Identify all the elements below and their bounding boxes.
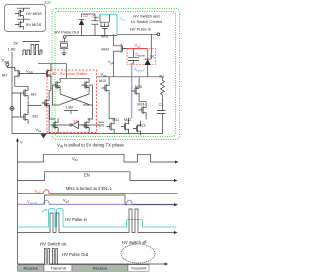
svg-text:R1: R1 (160, 75, 165, 79)
phase band transmit 1 (44, 265, 72, 271)
svg-text:1.8V: 1.8V (8, 47, 17, 52)
wire top rail (82, 13, 96, 15)
svg-text:HV Switch off: HV Switch off (122, 240, 147, 245)
svg-text:1.8V: 1.8V (65, 105, 74, 110)
svg-text:D1: D1 (150, 54, 155, 58)
signal VIN (18, 154, 177, 162)
transistor M15 (132, 84, 140, 97)
green dotted outer box (52, 9, 180, 140)
wire input vertical (12, 52, 21, 134)
wire cross-coupled (53, 78, 93, 105)
svg-text:HV Pulse In: HV Pulse In (130, 27, 151, 32)
wire Vboost purple (131, 63, 133, 118)
svg-text:HV Switch on: HV Switch on (40, 242, 67, 247)
transistor M1 (21, 110, 29, 123)
wire Vg2 red (127, 49, 148, 59)
wire shifter bottoms (58, 125, 99, 134)
signal gate drive cyan (18, 209, 177, 228)
transistor M5 (42, 96, 50, 109)
svg-text:HV Pulse Out: HV Pulse Out (55, 30, 80, 35)
wire M2/M5/M1 drains (15, 80, 49, 134)
transistor M3 (51, 118, 59, 131)
svg-text:MH2: MH2 (102, 48, 110, 52)
legend box (5, 5, 46, 32)
ellipse highlight (121, 244, 155, 263)
wire Vgnd to M7 (7, 66, 15, 70)
wire LV gates (114, 118, 141, 134)
transistor M8 (82, 118, 90, 131)
svg-text:Receive: Receive (93, 266, 108, 271)
svg-text:EN: EN (84, 173, 90, 178)
transducer element (63, 36, 66, 39)
phase band receive 2 (72, 265, 128, 271)
wire shifter sides (50, 105, 93, 119)
svg-text:10x: 10x (44, 0, 52, 5)
wire bottom rail (12, 133, 163, 135)
svg-text:HV Switch and: HV Switch and (133, 14, 159, 19)
svg-text:M9: M9 (85, 85, 90, 89)
svg-text:M2: M2 (31, 92, 37, 97)
svg-text:M14: M14 (138, 103, 145, 107)
svg-text:5V: 5V (14, 41, 19, 46)
svg-text:D2: D2 (84, 14, 89, 18)
svg-text:Receive: Receive (23, 266, 38, 271)
wire M15/M14 (139, 77, 146, 119)
legend 5V MOS symbol (15, 19, 30, 29)
svg-text:HV MOS: HV MOS (26, 11, 42, 16)
svg-text:M7: M7 (2, 73, 8, 78)
wire cyan Vg1 (100, 14, 117, 35)
svg-text:MH2 is turned on if EN=1: MH2 is turned on if EN=1 (66, 186, 113, 191)
phase band receive 1 (18, 265, 45, 271)
capacitor Cboost (127, 49, 156, 65)
transistor M2 (21, 86, 29, 99)
wire Vgs rail (97, 76, 163, 78)
svg-text:M10: M10 (99, 79, 106, 83)
legend HV MOS symbol (15, 8, 30, 18)
signal EN (18, 172, 176, 181)
svg-text:M1: M1 (33, 114, 39, 119)
svg-text:HV Pulse in: HV Pulse in (65, 217, 88, 222)
svg-text:M11: M11 (113, 118, 120, 122)
clock waveform glyph (22, 42, 42, 55)
svg-text:5V MOS: 5V MOS (26, 22, 41, 27)
svg-text:Transmit: Transmit (50, 266, 66, 271)
ground transducer (62, 53, 67, 56)
wire VDD rail (23, 73, 45, 75)
svg-text:M12: M12 (124, 118, 131, 122)
svg-text:MH1: MH1 (101, 35, 109, 39)
svg-text:LV Switch Control: LV Switch Control (131, 19, 163, 24)
signal Vg2 black box (45, 195, 126, 205)
svg-text:Transmit: Transmit (131, 266, 147, 271)
svg-text:M15: M15 (135, 85, 142, 89)
svg-text:V: V (20, 140, 23, 145)
svg-text:EN: EN (99, 123, 105, 128)
wire M4 drain down (38, 64, 67, 97)
green dotted inner box (55, 12, 176, 137)
svg-text:1.8V - 5V Level Shifter: 1.8V - 5V Level Shifter (49, 72, 88, 76)
svg-text:HV Pulse Out: HV Pulse Out (62, 252, 89, 257)
phase band transmit 2 (128, 265, 149, 271)
axis V (17, 141, 19, 265)
transistor M6 (53, 78, 61, 91)
transistor M9 (82, 78, 90, 91)
node input circle (10, 107, 14, 111)
svg-text:M6: M6 (56, 85, 61, 89)
transistor MH1 (100, 22, 109, 35)
level shifter red dashed box (47, 70, 97, 133)
